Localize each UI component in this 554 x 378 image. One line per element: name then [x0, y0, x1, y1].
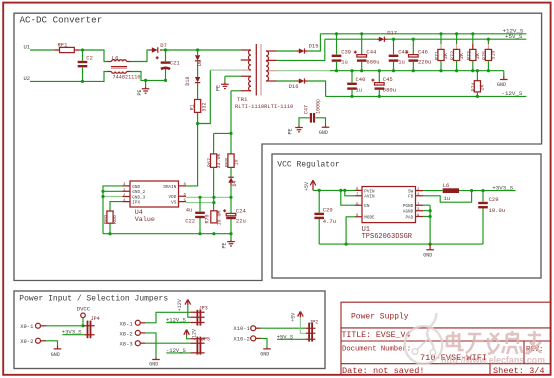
svg-text:R66: R66	[112, 215, 118, 224]
wire -12V arrow to JP5	[187, 335, 191, 338]
node junction aux	[229, 132, 232, 135]
svg-text:1u: 1u	[398, 59, 405, 66]
svg-text:R68: R68	[225, 158, 231, 167]
svg-text:PAD: PAD	[405, 215, 413, 220]
node junction vdd R67	[212, 196, 215, 199]
svg-text:R73: R73	[466, 51, 472, 60]
wire -12V_S stub	[166, 352, 190, 354]
supply -12V arrow	[184, 329, 198, 341]
svg-text:PE: PE	[137, 89, 143, 95]
wire +12V_S stub	[166, 322, 190, 324]
resistor R69	[104, 211, 119, 234]
svg-text:D7: D7	[160, 42, 167, 49]
svg-text:+5V_S: +5V_S	[505, 33, 523, 40]
svg-text:C44: C44	[366, 48, 377, 55]
svg-text:AC-DC Converter: AC-DC Converter	[20, 15, 103, 26]
wire fb loop	[423, 191, 472, 203]
svg-text:IPX: IPX	[132, 201, 140, 206]
svg-text:EN: EN	[364, 204, 370, 209]
node junction gnd C43	[392, 69, 395, 72]
svg-text:AVIN: AVIN	[364, 195, 375, 200]
svg-text:X9-1: X9-1	[20, 323, 34, 330]
svg-text:D17: D17	[387, 30, 397, 37]
node junction c20 top	[318, 189, 321, 192]
capacitor C43	[389, 39, 408, 70]
svg-text:D18: D18	[185, 77, 191, 86]
node junction rail1 R71	[439, 32, 442, 35]
resistor RF1	[54, 41, 80, 52]
pin X8-3	[135, 341, 140, 346]
svg-text:4.7u: 4.7u	[323, 218, 336, 225]
svg-text:+5V: +5V	[291, 313, 297, 322]
node junction bus gnd2	[101, 190, 104, 193]
node junction vdd C22	[198, 196, 201, 199]
diode D4	[228, 177, 238, 197]
capacitor C45	[371, 71, 396, 97]
svg-text:332: 332	[202, 102, 208, 111]
wire D15 to +12V rail	[307, 34, 320, 51]
svg-text:GND: GND	[260, 351, 269, 357]
svg-text:C47: C47	[304, 105, 310, 114]
svg-text:+5V_S: +5V_S	[277, 333, 294, 340]
wire secondary tap3 gnd rail pale	[277, 70, 331, 72]
inductor L6 common-mode choke	[108, 54, 141, 80]
wire VS rail	[186, 202, 214, 204]
svg-text:680u: 680u	[366, 59, 379, 66]
node junction gnd C44	[360, 69, 363, 72]
inductor L6 vcc	[443, 182, 459, 202]
diode D16	[289, 78, 308, 90]
resistor R74	[471, 71, 486, 97]
watermark logo circle	[405, 313, 443, 364]
svg-text:http://www.elecfans.com: http://www.elecfans.com	[441, 356, 545, 367]
wire X10-1 to JP2	[256, 327, 306, 329]
IC U4	[123, 181, 187, 224]
node junction gnd C45	[378, 69, 381, 72]
Power Input section frame	[14, 291, 325, 369]
diode D17	[377, 30, 397, 42]
pin X10-2	[251, 336, 256, 341]
ground PE near L6	[137, 80, 150, 95]
wire L6 top to D7	[131, 50, 150, 62]
node junction rail C24	[229, 232, 232, 235]
diode D8	[195, 50, 203, 66]
node junction rail1 C44	[360, 32, 363, 35]
svg-text:PE: PE	[287, 128, 293, 134]
node junction rail1 R72	[455, 32, 458, 35]
wire U1 line to RF1	[30, 49, 54, 51]
wire secondary tap4 to D16	[277, 80, 297, 82]
svg-text:JP2: JP2	[309, 320, 318, 326]
pin X9-2	[36, 338, 41, 343]
svg-text:TR1: TR1	[237, 96, 248, 103]
svg-text:R69: R69	[104, 215, 110, 224]
svg-text:+3V3_S: +3V3_S	[62, 329, 83, 336]
supply +5V arrow X10	[291, 311, 304, 321]
node junction gnd R71	[439, 69, 442, 72]
pin X9-1	[36, 323, 41, 328]
AC-DC Converter section frame	[14, 13, 542, 280]
svg-text:GND: GND	[319, 130, 328, 136]
svg-text:R70: R70	[204, 214, 210, 223]
wire X8-1 to JP3	[140, 312, 190, 323]
pin X8-2	[135, 330, 140, 335]
node junction railm R74	[476, 95, 479, 98]
resistor R1	[189, 83, 207, 124]
svg-text:1u: 1u	[356, 87, 363, 94]
svg-text:Power Input / Selection Jumper: Power Input / Selection Jumpers	[19, 295, 168, 304]
resistor R68	[225, 133, 240, 177]
svg-text:D16: D16	[289, 83, 299, 90]
node junction C21 bottom	[164, 79, 167, 82]
node junction gnd R75	[487, 69, 490, 72]
svg-text:R67: R67	[207, 158, 213, 167]
svg-text:680u: 680u	[383, 87, 396, 94]
svg-text:X9-2: X9-2	[20, 338, 33, 345]
svg-text:C45: C45	[383, 76, 393, 83]
svg-text:GND: GND	[497, 82, 506, 88]
svg-text:GND_3: GND_3	[132, 195, 145, 200]
resistor R75	[482, 39, 497, 70]
svg-text:+5V: +5V	[304, 182, 310, 191]
svg-text:C20: C20	[323, 206, 333, 213]
svg-text:C46: C46	[418, 48, 428, 55]
wire en link	[341, 190, 355, 205]
wire +5V arrow to JP2	[300, 317, 306, 333]
resistor R67	[207, 133, 222, 210]
supply +12V arrow	[177, 299, 191, 311]
node junction vs R70	[212, 201, 215, 204]
svg-text:R71: R71	[435, 51, 441, 60]
node junction dvcc	[81, 324, 84, 327]
wire +3V3_S stub	[62, 334, 84, 336]
wire vcc ground rail	[319, 243, 483, 245]
VCC Regulator section frame	[272, 154, 541, 278]
node junction rail C22	[198, 232, 201, 235]
node junction rail2 C46	[412, 38, 415, 41]
wire +5V_S rail right	[387, 38, 527, 40]
svg-text:2K: 2K	[459, 53, 465, 59]
svg-text:X10-1: X10-1	[233, 325, 250, 332]
capacitor C24	[223, 197, 246, 233]
capacitor C21	[156, 50, 181, 80]
ground PE transformer	[216, 82, 229, 91]
svg-text:C29: C29	[489, 196, 499, 203]
svg-text:C40: C40	[356, 76, 366, 83]
svg-text:GND: GND	[132, 185, 140, 190]
node junction rail R69	[108, 232, 111, 235]
svg-text:510: 510	[491, 50, 497, 59]
svg-text:R72: R72	[450, 51, 456, 60]
capacitor C46	[405, 39, 431, 70]
node junction rail1 C39	[335, 32, 338, 35]
svg-text:33.0K: 33.0K	[216, 153, 222, 168]
resistor R73	[466, 34, 481, 71]
node junction rail2 R75	[487, 38, 490, 41]
svg-text:VS: VS	[171, 201, 177, 206]
node junction rail1 R73	[471, 32, 474, 35]
svg-text:TITLE: EVSE_V4: TITLE: EVSE_V4	[342, 331, 411, 340]
node junction gnd R72	[455, 69, 458, 72]
svg-text:VDD: VDD	[169, 195, 177, 200]
wire avin link	[345, 190, 355, 195]
wire U2 line to L6	[30, 72, 108, 82]
svg-text:2K: 2K	[443, 53, 449, 59]
wire X10-2 to gnd	[256, 338, 267, 347]
svg-text:X8-2: X8-2	[120, 330, 133, 337]
capacitor C2	[78, 50, 93, 81]
wire gnd rail	[330, 71, 504, 76]
svg-text:Document Number:: Document Number:	[342, 346, 411, 354]
wire X9-2 to gnd	[41, 341, 58, 346]
svg-text:U1: U1	[24, 44, 31, 51]
svg-text:U2: U2	[24, 75, 31, 82]
capacitor C47	[299, 99, 326, 126]
ground GND vcc	[423, 244, 434, 258]
diode D7	[150, 42, 167, 53]
svg-text:C22: C22	[185, 217, 195, 224]
wire U4 ground rail	[103, 233, 231, 235]
jumper JP3	[190, 305, 207, 325]
svg-text:744821110: 744821110	[113, 74, 141, 80]
resistor R70	[204, 210, 222, 225]
wire U4 gnd bus	[103, 186, 123, 234]
node junction railm C45	[378, 95, 381, 98]
supply +5V arrow vcc	[304, 180, 316, 191]
pin X10-1	[251, 326, 256, 331]
wire +5V_S stub	[277, 338, 306, 340]
svg-text:GND: GND	[423, 252, 432, 258]
svg-text:JP5: JP5	[201, 336, 210, 342]
wire PE to transformer shield	[225, 76, 241, 82]
node junction mode gnd	[345, 243, 348, 246]
capacitor C22	[185, 197, 205, 233]
svg-text:X10-2: X10-2	[233, 335, 250, 342]
ground PE at U4 rail	[222, 240, 235, 249]
wire inductor to 3V3	[459, 190, 516, 192]
node junction c29	[481, 189, 484, 192]
svg-text:DVCC: DVCC	[77, 305, 91, 312]
svg-text:Value: Value	[135, 216, 155, 224]
node junction gnd C40	[350, 69, 353, 72]
watermark chinese text	[447, 331, 541, 354]
svg-text:R1: R1	[189, 104, 195, 110]
node junction snubber bottom	[196, 122, 199, 125]
wire X9-1 to JP4	[41, 325, 85, 327]
node junction avin	[343, 189, 346, 192]
wire drain node	[198, 70, 211, 123]
svg-text:MODE: MODE	[364, 216, 375, 221]
wire L6 bottom return	[131, 72, 166, 81]
jumper JP2	[306, 320, 318, 342]
ground GND at C47	[319, 126, 329, 136]
svg-text:L6: L6	[112, 54, 119, 61]
svg-text:L6: L6	[443, 182, 450, 189]
node junction C2 bottom	[81, 80, 84, 83]
svg-text:GND: GND	[51, 352, 60, 358]
svg-text:-12V_S: -12V_S	[166, 347, 187, 354]
wire X8-3 to JP5	[140, 342, 190, 344]
svg-text:R75: R75	[482, 51, 488, 60]
wire sw to inductor	[423, 190, 443, 192]
title block frame	[341, 302, 550, 374]
wire RF1 to L6	[80, 50, 108, 62]
svg-text:RLTI-1110RLTI-1110: RLTI-1110RLTI-1110	[235, 104, 293, 110]
svg-text:X8-1: X8-1	[120, 320, 134, 327]
svg-text:4u: 4u	[186, 207, 193, 214]
svg-text:1000p: 1000p	[316, 99, 322, 114]
node junction gnd C46	[412, 69, 415, 72]
capacitor C44	[354, 34, 380, 71]
svg-text:C21: C21	[170, 59, 181, 66]
supply DVCC pin	[77, 305, 91, 325]
wire X8-2 to gnd	[140, 333, 156, 357]
node junction pad	[429, 215, 432, 218]
ground GND X9	[51, 345, 62, 358]
node junction fb	[470, 189, 473, 192]
wire +12V_S rail	[320, 33, 526, 35]
capacitor C29	[478, 191, 505, 245]
wire secondary tap2 to +5V rail	[277, 39, 325, 60]
node junction snubber top	[196, 48, 199, 51]
svg-text:TPS62063DSGR: TPS62063DSGR	[362, 233, 413, 241]
svg-text:C24: C24	[236, 207, 247, 214]
svg-text:JP3: JP3	[199, 305, 208, 311]
svg-text:R74: R74	[471, 82, 477, 91]
node junction vdd D4	[229, 196, 232, 199]
node junction rail2 C43	[392, 38, 395, 41]
capacitor C40	[347, 71, 365, 97]
wire drain to primary	[210, 69, 240, 71]
resistor R71	[435, 34, 450, 71]
svg-text:+12V_S: +12V_S	[166, 317, 187, 324]
svg-text:DRAIN: DRAIN	[163, 185, 176, 190]
node junction agnd	[429, 209, 432, 212]
svg-text:AGND: AGND	[403, 210, 414, 215]
svg-text:+3V3_S: +3V3_S	[492, 184, 513, 191]
svg-text:Sheet: 3/4: Sheet: 3/4	[493, 366, 545, 376]
svg-text:+12V: +12V	[177, 299, 183, 311]
svg-text:-12V_S: -12V_S	[502, 90, 523, 97]
node junction railm C40	[350, 95, 353, 98]
wire U4 ipx to R69	[110, 202, 123, 211]
svg-text:1u: 1u	[341, 59, 348, 66]
diode D15	[297, 43, 319, 54]
wire drain down to U4	[186, 124, 198, 186]
node junction C2 top	[81, 48, 84, 51]
svg-text:10.0u: 10.0u	[489, 207, 506, 214]
svg-text:10.0M: 10.0M	[216, 210, 222, 225]
node junction C21 top	[164, 48, 167, 51]
wire VDD rail	[186, 196, 231, 198]
node junction rail R70	[212, 232, 215, 235]
svg-text:220u: 220u	[418, 59, 431, 66]
ground GND secondary	[497, 75, 508, 88]
wire +12V arrow to JP3	[188, 306, 191, 318]
wire mode link	[346, 217, 355, 244]
ground GND X8	[149, 357, 160, 367]
svg-text:C39: C39	[341, 48, 351, 55]
pin X8-1	[135, 320, 140, 325]
svg-text:PGND: PGND	[403, 204, 414, 209]
capacitor C20	[314, 190, 336, 244]
ground PE at C47	[287, 126, 303, 135]
svg-text:JP4: JP4	[91, 316, 100, 322]
node junction PE drop	[144, 79, 147, 82]
svg-text:22u: 22u	[236, 217, 246, 224]
node junction en	[339, 189, 342, 192]
svg-text:Date: not saved!: Date: not saved!	[342, 366, 425, 376]
transformer TR1	[235, 44, 293, 110]
capacitor C39	[332, 34, 351, 71]
svg-text:RF1: RF1	[58, 41, 69, 48]
svg-text:FB: FB	[408, 195, 414, 200]
wire pgnd agnd pad bus	[423, 205, 430, 244]
node junction gnd C39	[335, 69, 338, 72]
node junction gnd sym	[429, 243, 432, 246]
IC U1	[355, 187, 423, 242]
svg-text:Power Supply: Power Supply	[351, 313, 409, 322]
svg-text:VCC Regulator: VCC Regulator	[277, 160, 340, 169]
wire aux winding down	[214, 91, 241, 134]
svg-text:1u: 1u	[444, 195, 451, 202]
svg-text:PE: PE	[216, 85, 222, 91]
wire secondary tap1 to D15	[277, 50, 297, 52]
resistor R72	[450, 34, 465, 71]
svg-text:D4: D4	[232, 180, 238, 186]
svg-text:2K: 2K	[475, 53, 481, 59]
jumper JP4	[84, 316, 99, 338]
svg-text:10: 10	[234, 159, 240, 165]
svg-text:GND: GND	[149, 361, 158, 367]
svg-text:PE: PE	[222, 242, 228, 248]
node junction gnd R73	[471, 69, 474, 72]
node junction bus gnd3	[101, 195, 104, 198]
wire -12V_S rail	[326, 95, 527, 97]
wire vcc input node	[313, 189, 355, 191]
ground GND X10	[260, 347, 271, 357]
diode D18	[185, 61, 200, 86]
wire rail down to PE	[230, 234, 232, 240]
svg-text:2K: 2K	[480, 84, 486, 90]
wire D16 to -12V rail	[307, 81, 325, 96]
wire +5V_S rail left	[325, 38, 377, 40]
svg-text:D15: D15	[309, 43, 319, 50]
jumper JP5	[190, 336, 210, 354]
node junction gnd R74	[476, 69, 479, 72]
wire D7 to transformer primary top	[162, 49, 241, 51]
svg-text:PVIN: PVIN	[364, 189, 375, 194]
svg-text:C2: C2	[86, 54, 93, 61]
svg-text:X8-3: X8-3	[120, 341, 133, 348]
